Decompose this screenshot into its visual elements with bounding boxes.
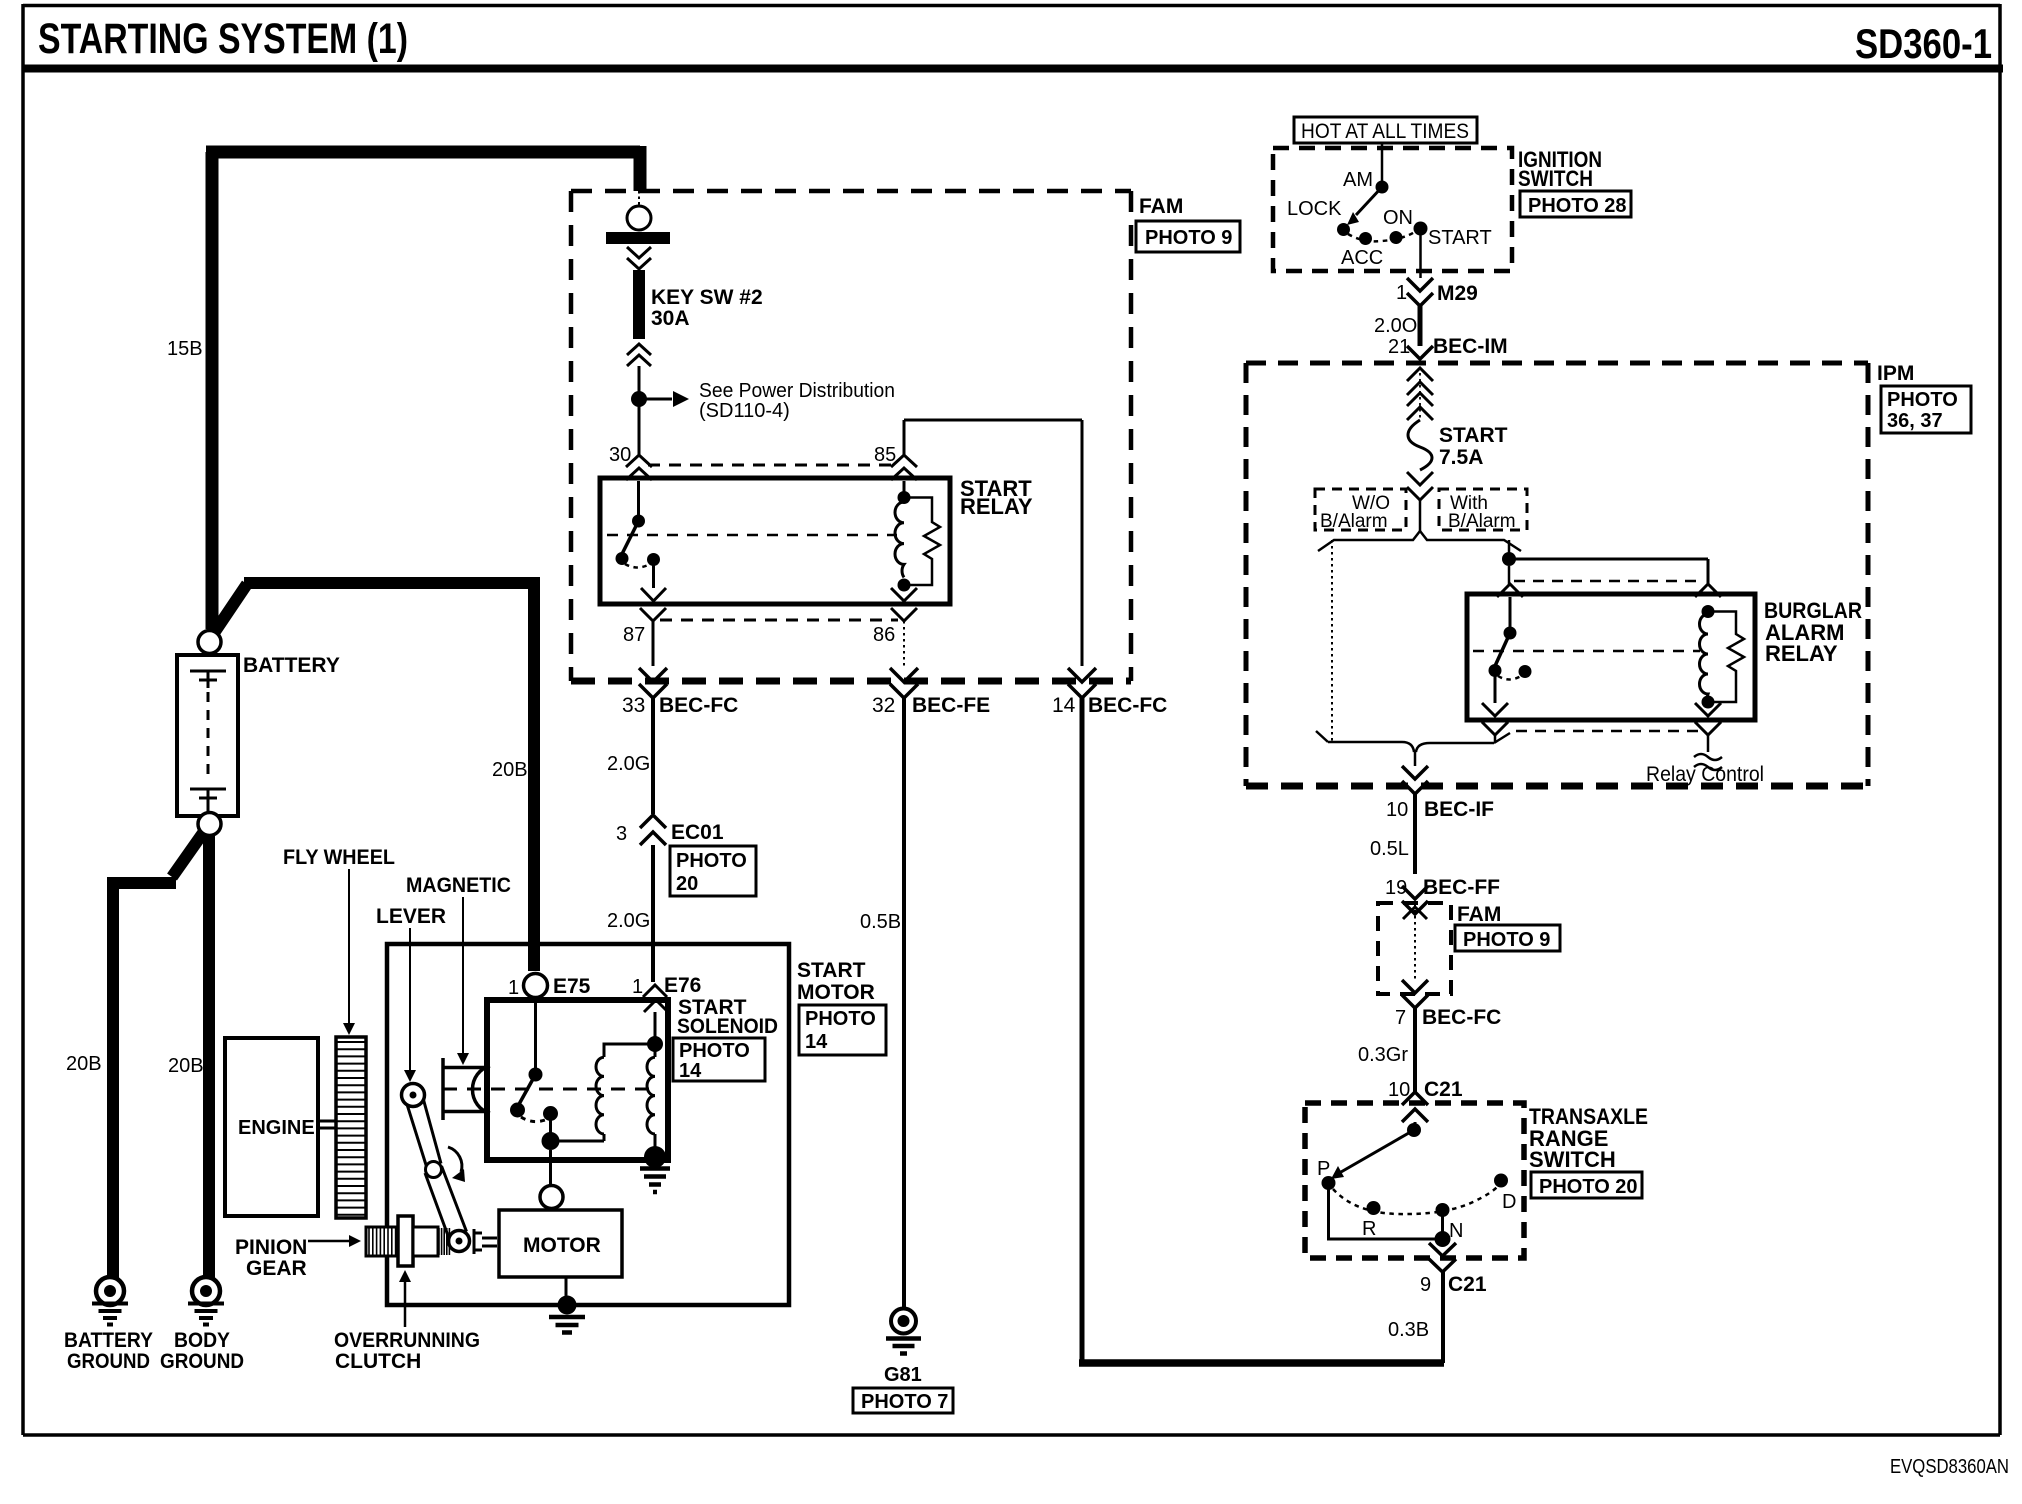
svg-text:ENGINE: ENGINE (238, 1117, 315, 1139)
svg-text:B/Alarm: B/Alarm (1448, 511, 1516, 532)
leader magnetic (462, 897, 464, 1053)
chevron into burglar coil (1695, 584, 1721, 597)
overrunning clutch body (398, 1216, 413, 1266)
With branch to junction (1508, 540, 1511, 554)
svg-text:14: 14 (805, 1031, 828, 1053)
W/O branch wire down (1331, 540, 1333, 742)
svg-text:D: D (1502, 1191, 1516, 1213)
svg-text:14: 14 (679, 1060, 702, 1082)
svg-text:0.5B: 0.5B (860, 911, 901, 933)
chevron below bus bar (627, 247, 651, 269)
svg-text:SOLENOID: SOLENOID (677, 1015, 778, 1038)
svg-text:MOTOR: MOTOR (797, 981, 875, 1004)
svg-text:SD360-1: SD360-1 (1855, 20, 1992, 67)
svg-text:ACC: ACC (1341, 247, 1383, 269)
svg-text:ON: ON (1383, 207, 1413, 229)
W/O B/Alarm dashed box (1315, 489, 1406, 530)
burglar relay sub dashed bottom (1516, 730, 1702, 733)
title separator bar (23, 65, 2003, 73)
svg-text:32: 32 (872, 694, 895, 717)
engine box (225, 1038, 318, 1216)
svg-text:PINION: PINION (235, 1236, 307, 1259)
svg-text:PHOTO 9: PHOTO 9 (1145, 227, 1232, 249)
pin 86 chevron below (891, 608, 917, 621)
rotation arrow (448, 1147, 462, 1172)
wire 14 BEC-FC down and across to transaxle (1080, 698, 1085, 1360)
svg-text:10: 10 (1386, 799, 1408, 821)
svg-text:GROUND: GROUND (160, 1350, 244, 1373)
wire P to N junction (1329, 1183, 1443, 1243)
chevron below fuse (627, 344, 651, 366)
leader fly wheel (348, 869, 350, 1024)
svg-text:LOCK: LOCK (1287, 198, 1342, 220)
svg-text:BEC-FC: BEC-FC (659, 694, 738, 717)
start solenoid box (487, 1000, 668, 1160)
wire hot to AM contact (1381, 143, 1384, 182)
connector 14 BEC-FC chevrons (1068, 668, 1096, 698)
photo 20 box (transaxle) (1531, 1172, 1642, 1198)
photo 28 box (1520, 191, 1631, 217)
svg-text:EC01: EC01 (671, 821, 724, 844)
svg-text:CLUTCH: CLUTCH (335, 1350, 421, 1373)
svg-text:START: START (1439, 424, 1508, 447)
svg-text:1: 1 (632, 976, 643, 998)
svg-text:30A: 30A (651, 307, 690, 330)
chevron below burglar switch (1482, 722, 1508, 735)
relay coil output to pin 86 (891, 585, 917, 601)
FAM dashed box (lower) (1378, 903, 1451, 994)
svg-text:SWITCH: SWITCH (1529, 1147, 1616, 1172)
svg-text:START: START (797, 959, 866, 982)
clutch fork to motor (474, 1229, 497, 1254)
wire motor to ground (565, 1277, 568, 1302)
transaxle selector blade (1341, 1130, 1414, 1172)
HOT AT ALL TIMES box (1294, 117, 1477, 143)
wire 87 to connector 33 (652, 621, 655, 666)
svg-text:0.5L: 0.5L (1370, 838, 1409, 860)
wire 33 to EC01 (651, 698, 655, 814)
svg-text:N: N (1449, 1220, 1463, 1242)
FAM dashed box (571, 189, 1131, 194)
svg-text:RELAY: RELAY (960, 494, 1033, 519)
chevron below fuse (1407, 472, 1433, 500)
svg-text:FAM: FAM (1457, 903, 1501, 926)
solenoid switch dashed arc (521, 1117, 548, 1122)
fuse element KEY SW #2 30A (633, 270, 645, 339)
svg-text:20B: 20B (168, 1055, 204, 1077)
svg-text:G81: G81 (884, 1364, 922, 1386)
svg-text:BEC-FF: BEC-FF (1423, 876, 1500, 899)
relay internal dashed line (607, 534, 897, 537)
svg-text:14: 14 (1052, 694, 1076, 717)
solenoid mechanical dashed centerline (443, 1088, 650, 1091)
photo 14 box (solenoid) (673, 1038, 765, 1081)
photo 9 box (lower) (1455, 925, 1560, 951)
connector 1 M29 (1407, 278, 1433, 306)
svg-text:BEC-FE: BEC-FE (912, 694, 990, 717)
svg-text:PHOTO: PHOTO (805, 1008, 876, 1030)
connector 3 EC01 (640, 815, 666, 845)
svg-text:86: 86 (873, 624, 895, 646)
engine to flywheel link (318, 1121, 336, 1128)
svg-text:SWITCH: SWITCH (1518, 166, 1593, 191)
svg-text:PHOTO: PHOTO (679, 1040, 750, 1062)
wire junction down to switch side (1508, 566, 1511, 586)
ignition switch dashed box (1273, 148, 1512, 271)
photo 36,37 box (1881, 386, 1971, 433)
svg-text:BODY: BODY (174, 1329, 230, 1352)
chevrons entering IPM (1407, 368, 1433, 395)
lever bottom circle (449, 1231, 470, 1252)
svg-text:7: 7 (1395, 1007, 1406, 1029)
svg-text:2.0O: 2.0O (1374, 315, 1417, 337)
svg-text:HOT AT ALL TIMES: HOT AT ALL TIMES (1301, 120, 1469, 143)
battery bottom terminal circle (198, 813, 221, 836)
fuse bus bar (606, 232, 670, 244)
leader pinion gear arrow (308, 1240, 350, 1243)
wire solenoid switch to motor terminal (549, 1150, 552, 1196)
svg-text:2.0G: 2.0G (607, 753, 650, 775)
start relay box (600, 478, 950, 604)
wire 9 C21 down to thick wire (1441, 1272, 1445, 1363)
motor box (499, 1210, 622, 1277)
svg-text:15B: 15B (167, 338, 203, 360)
fuse top circle (627, 206, 651, 230)
svg-text:BEC-FC: BEC-FC (1088, 694, 1167, 717)
svg-text:PHOTO 9: PHOTO 9 (1463, 929, 1550, 951)
wire 85 up and over to 14 (904, 420, 1082, 666)
svg-text:0.3Gr: 0.3Gr (1358, 1044, 1408, 1066)
svg-text:BEC-FC: BEC-FC (1422, 1006, 1501, 1029)
svg-text:RELAY: RELAY (1765, 641, 1838, 666)
ignition blade to LOCK (1356, 187, 1382, 215)
wire battery negative to battery ground (113, 833, 203, 1278)
body ground symbol (188, 1277, 224, 1325)
connector 21 BEC-IM (1407, 346, 1433, 359)
svg-text:20: 20 (676, 873, 698, 895)
svg-text:3: 3 (616, 823, 627, 845)
svg-text:BEC-IF: BEC-IF (1424, 798, 1494, 821)
battery ground symbol (92, 1277, 128, 1325)
connector 33 BEC-FC chevrons (639, 668, 667, 698)
connector E75 pin 1 (524, 974, 548, 998)
dashed arc P R N D (1333, 1186, 1498, 1214)
contact D (1494, 1174, 1508, 1188)
svg-text:C21: C21 (1424, 1078, 1463, 1101)
svg-text:FLY WHEEL: FLY WHEEL (283, 846, 395, 869)
svg-text:P: P (1317, 1158, 1330, 1180)
svg-text:85: 85 (874, 444, 896, 466)
solenoid switch output to motor (549, 1114, 552, 1142)
wire battery case to body ground (203, 835, 215, 1278)
svg-text:C21: C21 (1448, 1273, 1487, 1296)
svg-text:MAGNETIC: MAGNETIC (406, 874, 511, 897)
svg-text:BATTERY: BATTERY (64, 1329, 153, 1352)
svg-text:B/Alarm: B/Alarm (1320, 511, 1388, 532)
solenoid hold-in coil (647, 1036, 663, 1052)
fuse KEY SW #2 entry (638, 191, 640, 205)
burglar relay switch (1509, 597, 1512, 628)
photo 20 box (EC01) (670, 846, 756, 896)
chevron into burglar switch (1497, 584, 1523, 597)
solenoid switch blade (518, 1075, 536, 1107)
svg-text:36, 37: 36, 37 (1887, 410, 1943, 432)
With B/Alarm dashed box (1439, 489, 1527, 530)
relay switch (637, 481, 640, 516)
svg-text:PHOTO 20: PHOTO 20 (1539, 1176, 1638, 1198)
svg-text:LEVER: LEVER (376, 905, 446, 928)
option split bars (1318, 531, 1521, 551)
svg-text:21: 21 (1388, 336, 1410, 358)
transaxle input wire (1414, 1122, 1417, 1126)
leader lever (409, 928, 411, 1070)
svg-text:9: 9 (1420, 1274, 1431, 1296)
merge of W/O and relay branches (1316, 731, 1510, 766)
lever middle hole (426, 1162, 442, 1178)
START contact (1414, 222, 1428, 236)
svg-text:1: 1 (508, 977, 519, 999)
wire junction to coil side (1509, 559, 1708, 584)
svg-text:FAM: FAM (1139, 195, 1183, 218)
wire M29 to BEC-IM (1418, 306, 1423, 346)
burglar relay internal dashed (1473, 650, 1700, 653)
svg-text:GROUND: GROUND (67, 1350, 150, 1373)
plunger C-curve (472, 1066, 490, 1113)
svg-text:87: 87 (623, 624, 645, 646)
svg-text:See Power Distribution: See Power Distribution (699, 380, 895, 402)
svg-text:0.3B: 0.3B (1388, 1319, 1429, 1341)
pin 30 chevron (626, 455, 652, 480)
relay coil resistor (904, 498, 940, 586)
wire 32 to G81 (902, 698, 906, 1307)
LOCK contact (1337, 223, 1350, 236)
solenoid plunger (443, 1058, 485, 1120)
svg-text:M29: M29 (1437, 282, 1478, 305)
svg-text:1: 1 (1396, 282, 1407, 304)
svg-text:MOTOR: MOTOR (523, 1234, 601, 1257)
burglar coil output (1695, 703, 1721, 716)
svg-text:30: 30 (609, 444, 631, 466)
burglar switch output (1482, 671, 1508, 717)
battery cell symbols (190, 671, 226, 688)
wire BEC-IF to BEC-FF (1413, 794, 1417, 874)
svg-text:19: 19 (1385, 877, 1407, 899)
svg-text:(SD110-4): (SD110-4) (699, 400, 790, 422)
lever upper arm (406, 1093, 467, 1238)
photo 14 box (start motor) (799, 1005, 886, 1055)
battery top terminal circle (198, 631, 221, 654)
svg-text:STARTING SYSTEM (1): STARTING SYSTEM (1) (38, 15, 408, 63)
svg-text:Relay Control: Relay Control (1646, 763, 1764, 786)
lever pivot circle (402, 1084, 425, 1107)
svg-text:PHOTO: PHOTO (676, 850, 747, 872)
pin 87 chevron below (640, 608, 666, 621)
motor ground on box edge (558, 1296, 577, 1315)
ignition AM contact (1376, 181, 1389, 194)
svg-text:PHOTO 28: PHOTO 28 (1528, 195, 1627, 217)
svg-text:7.5A: 7.5A (1439, 446, 1483, 469)
connector 32 BEC-FE chevrons (890, 668, 918, 698)
relay sub-connector dashed line top (648, 464, 898, 467)
pin 85 chevron (891, 455, 917, 480)
burglar alarm relay box (1467, 594, 1755, 720)
svg-text:KEY SW #2: KEY SW #2 (651, 286, 763, 309)
relay coil (903, 481, 906, 492)
dashed arc LOCK-ACC-ON-START (1348, 231, 1416, 241)
junction node see-power (631, 391, 647, 407)
svg-text:START: START (1428, 227, 1492, 249)
burglar relay sub dashed top (1514, 580, 1702, 583)
svg-text:OVERRUNNING: OVERRUNNING (334, 1329, 480, 1352)
chevron below burglar coil (1695, 722, 1721, 735)
solenoid switch contact from E75 (534, 997, 537, 1068)
chevrons inside lower FAM (1403, 907, 1427, 919)
wire 15B battery positive cable (up and over to key fuse) (206, 146, 640, 629)
contact N (1436, 1203, 1450, 1217)
connector 9 C21 (1429, 1243, 1456, 1272)
chevron 7 BEC-FC (1402, 980, 1428, 1008)
relay control squiggle (1694, 735, 1722, 770)
start motor outer box (387, 944, 789, 1305)
wire BEC-FC to C21 (1413, 1008, 1417, 1092)
battery BATTERY box (177, 655, 238, 816)
contact R (1367, 1201, 1381, 1215)
flywheel gear (336, 1037, 366, 1218)
svg-text:AM: AM (1343, 169, 1373, 191)
svg-text:20B: 20B (492, 759, 528, 781)
photo 7 box (853, 1388, 953, 1413)
wire fuse to relay pin 30 (638, 366, 641, 456)
contact P (1322, 1176, 1336, 1190)
svg-text:GEAR: GEAR (246, 1257, 307, 1280)
svg-text:E76: E76 (664, 974, 701, 997)
connector 19 BEC-FF (1402, 886, 1428, 914)
svg-text:IPM: IPM (1877, 362, 1914, 385)
transaxle range switch dashed box (1305, 1103, 1524, 1258)
wire 20B battery positive to E75 (214, 577, 534, 971)
motor terminal circle (540, 1186, 563, 1209)
relay switch output to pin 87 (652, 560, 655, 589)
leader overrunning clutch arrow (404, 1282, 407, 1327)
wire EC01 to E76 (651, 845, 655, 982)
svg-text:R: R (1362, 1218, 1376, 1240)
svg-text:EVQSD8360AN: EVQSD8360AN (1890, 1456, 2009, 1478)
burglar coil (1702, 605, 1715, 618)
solenoid ground (644, 1146, 666, 1168)
svg-text:2.0G: 2.0G (607, 910, 650, 932)
pinion gear (366, 1227, 397, 1256)
wire START down (1419, 229, 1422, 279)
ground G81 (891, 1309, 916, 1334)
svg-text:BEC-IM: BEC-IM (1433, 335, 1508, 358)
svg-text:BATTERY: BATTERY (243, 654, 340, 677)
fuse START 7.5A wavy (1408, 420, 1432, 470)
wire 86 to connector 32 (903, 621, 905, 666)
svg-text:PHOTO 7: PHOTO 7 (861, 1391, 948, 1413)
photo 9 box (1136, 221, 1240, 252)
svg-text:PHOTO: PHOTO (1887, 389, 1958, 411)
solenoid pull-in coil (596, 1057, 604, 1134)
arrow to power distribution (639, 398, 672, 401)
svg-text:20B: 20B (66, 1053, 102, 1075)
chevron 10 BEC-IF (1402, 766, 1428, 794)
relay sub-connector dashed line bottom (660, 619, 898, 622)
svg-text:E75: E75 (553, 975, 591, 998)
svg-text:33: 33 (622, 694, 645, 717)
